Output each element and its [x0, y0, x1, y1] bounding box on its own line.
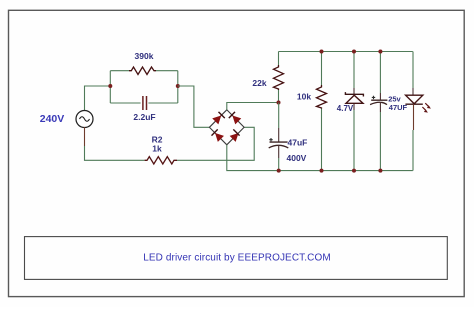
diode D3 bottom-left [212, 129, 224, 141]
wire source bottom to R2 [85, 146, 145, 160]
svg-text:1k: 1k [152, 144, 162, 154]
svg-text:2.2uF: 2.2uF [133, 112, 155, 122]
svg-text:22k: 22k [252, 78, 266, 88]
diode D1 top-left [213, 112, 225, 124]
RC parallel box wires [110, 71, 178, 103]
svg-text:4.7V: 4.7V [337, 104, 354, 113]
zener D5 4.7V [353, 52, 355, 171]
svg-text:47UF: 47UF [389, 103, 408, 112]
wire R2 to bridge right vertex [177, 127, 254, 160]
bottom rail junction dots [277, 169, 281, 173]
svg-text:LED driver circuit by EEEPROJE: LED driver circuit by EEEPROJECT.COM [143, 253, 331, 264]
wire bridge bottom vertex to bottom rail [227, 145, 413, 171]
wire RC box to bridge left vertex [178, 86, 210, 127]
wire source bottom lead [84, 127, 86, 146]
capacitor C3 25v 47UF [379, 52, 381, 94]
top rail [279, 51, 413, 53]
svg-text:390k: 390k [135, 51, 154, 61]
title box [25, 237, 448, 280]
resistor R2 1k [145, 157, 177, 164]
LED D6 [412, 52, 414, 89]
polarity mark [372, 96, 375, 99]
resistor 390k [129, 67, 156, 75]
wire bridge top vertex to 22k junction [227, 103, 279, 110]
resistor R3 22k vertical [278, 52, 280, 103]
svg-text:10k: 10k [297, 92, 311, 102]
junction 22k bottom [277, 101, 281, 105]
junction right [176, 84, 180, 88]
capacitor C2 47uF 400V [278, 103, 280, 129]
resistor R4 10k vertical [321, 52, 323, 171]
top rail junction dots [320, 50, 324, 54]
junction left [108, 84, 112, 88]
diode D2 top-right [229, 112, 241, 124]
diode D4 bottom-right [230, 129, 239, 141]
node A: wire source top to RC box [85, 86, 111, 111]
svg-text:47uF: 47uF [288, 138, 308, 148]
svg-text:400V: 400V [287, 153, 307, 163]
bridge rectifier BR1 diamond [209, 110, 244, 145]
AC source V1 240V [76, 111, 93, 128]
polarity mark [269, 138, 272, 141]
svg-text:240V: 240V [40, 113, 65, 125]
capacitor C1 2.2uF [143, 96, 147, 110]
